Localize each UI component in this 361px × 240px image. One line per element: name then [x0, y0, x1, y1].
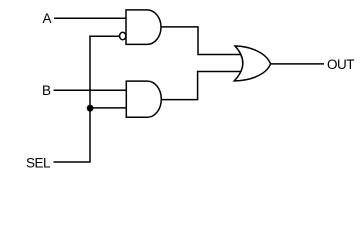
- wire inverted-select into top gate: [89, 35, 120, 37]
- or-gate output stage: [234, 46, 270, 81]
- svg-text:A: A: [43, 11, 52, 26]
- wire A input: [54, 17, 127, 19]
- junction dot on SEL net: [87, 105, 94, 112]
- svg-text:OUT: OUT: [327, 57, 354, 72]
- wire B input: [54, 89, 127, 91]
- wire SEL horizontal bottom: [54, 161, 91, 163]
- wire OUT output: [270, 63, 324, 65]
- wire bottom AND output: [161, 72, 242, 100]
- wire SEL vertical riser: [89, 36, 91, 163]
- wire select branch to bottom gate: [90, 107, 127, 109]
- and-gate top (A AND NOT SEL): [126, 10, 161, 45]
- and-gate bottom (B AND SEL): [126, 81, 161, 117]
- svg-text:SEL: SEL: [26, 155, 51, 170]
- wire top AND output: [161, 27, 243, 55]
- svg-text:B: B: [42, 83, 51, 98]
- inversion bubble on top gate select input: [120, 32, 126, 40]
